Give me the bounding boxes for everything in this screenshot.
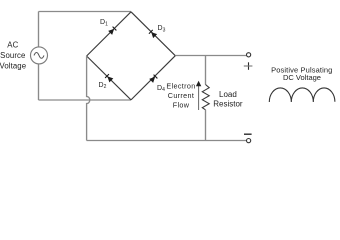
svg-text:Voltage: Voltage (0, 62, 26, 71)
wire bottom AC (to bridge bottom vertex) (39, 99, 132, 101)
svg-text:Flow: Flow (173, 100, 190, 109)
terminal positive (open circle) (247, 53, 251, 57)
bridge edge lower-right (bottom vertex to right vertex) (131, 56, 175, 100)
wire bottom output (to negative terminal) (87, 140, 247, 142)
label Electron Current Flow (166, 81, 195, 109)
svg-text:AC: AC (7, 41, 18, 50)
plus sign (244, 62, 253, 70)
wire from left vertex down with hop over AC wire (87, 56, 90, 141)
diode D3 (anode lower-right, points to top vertex) (149, 30, 157, 38)
bridge edge upper-left (left vertex to top vertex) (87, 12, 131, 56)
wire left (AC source branch vertical) (38, 12, 40, 101)
svg-text:Current: Current (168, 91, 194, 100)
svg-text:Source: Source (0, 51, 25, 60)
svg-text:Resistor: Resistor (213, 100, 243, 109)
label Load Resistor (213, 90, 243, 109)
svg-text:D3: D3 (158, 25, 166, 33)
resistor stem bottom (205, 110, 207, 141)
svg-text:D1: D1 (100, 19, 108, 27)
label Positive Pulsating DC Voltage (271, 66, 332, 82)
resistor load (zigzag) (202, 85, 209, 110)
svg-text:Load: Load (219, 90, 237, 99)
electron current flow arrow (196, 81, 201, 110)
svg-text:Electron: Electron (166, 81, 195, 90)
waveform pulsating DC (three half-sine humps) (269, 88, 335, 102)
bridge edge upper-right (top vertex to right vertex) (131, 12, 175, 56)
terminal negative (open circle) (247, 139, 251, 143)
diode D4 (anode lower-left, points to right vertex) (149, 75, 157, 83)
minus sign (244, 133, 252, 135)
resistor stem top (205, 56, 207, 85)
diode D2 (anode lower-right, points to left vertex) (105, 74, 113, 82)
AC source (31, 47, 48, 64)
diode D1 (anode lower-left, points to top vertex) (108, 27, 116, 35)
svg-text:D4: D4 (157, 85, 165, 93)
wire right output (to positive terminal) (175, 55, 246, 57)
bridge edge lower-left (left vertex to bottom vertex) (87, 56, 131, 100)
svg-text:D2: D2 (99, 82, 107, 90)
svg-text:DC Voltage: DC Voltage (283, 73, 321, 82)
wire top (AC source to bridge top vertex) (39, 11, 132, 13)
label AC Source Voltage (0, 41, 26, 71)
